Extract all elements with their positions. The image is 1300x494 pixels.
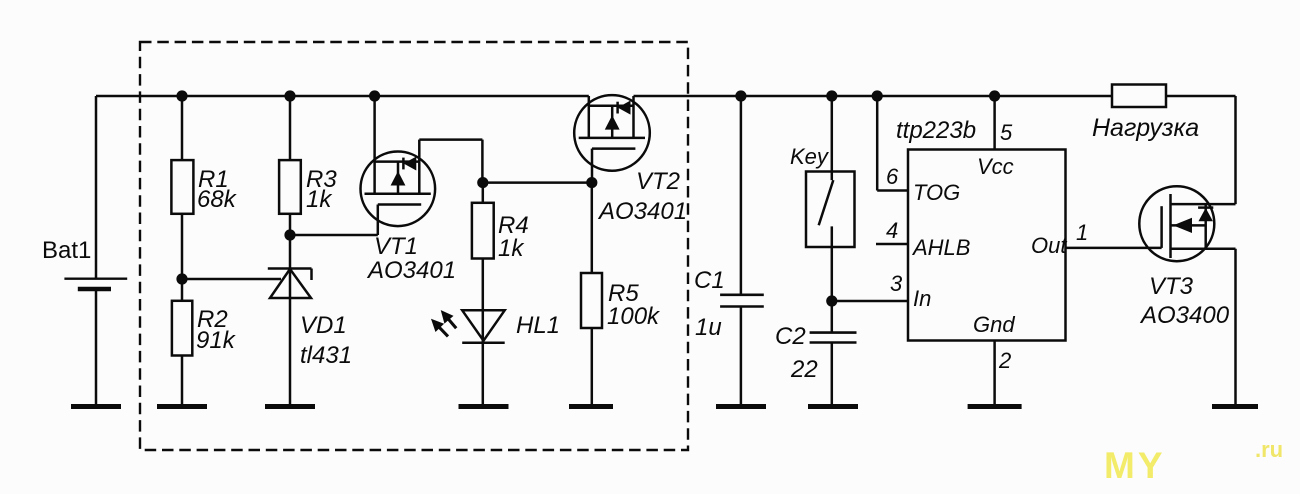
- svg-text:3: 3: [890, 271, 903, 296]
- svg-text:1k: 1k: [306, 186, 333, 213]
- svg-text:5: 5: [1000, 120, 1013, 145]
- svg-text:Gnd: Gnd: [973, 312, 1015, 337]
- svg-text:MY: MY: [1104, 445, 1166, 486]
- svg-text:C1: C1: [694, 267, 725, 294]
- svg-text:Нагрузка: Нагрузка: [1092, 114, 1199, 142]
- svg-text:C2: C2: [775, 323, 806, 350]
- svg-text:TOG: TOG: [913, 180, 960, 205]
- svg-text:.ru: .ru: [1255, 437, 1283, 462]
- svg-text:91k: 91k: [196, 327, 237, 354]
- svg-text:1k: 1k: [498, 235, 525, 262]
- svg-text:tl431: tl431: [300, 342, 352, 369]
- svg-text:100k: 100k: [607, 303, 661, 330]
- svg-text:VD1: VD1: [300, 312, 347, 339]
- svg-text:Out: Out: [1031, 233, 1067, 258]
- svg-text:AO3400: AO3400: [1139, 302, 1230, 329]
- svg-text:Key: Key: [790, 144, 830, 169]
- svg-text:ttp223b: ttp223b: [896, 117, 976, 144]
- svg-text:1u: 1u: [695, 314, 722, 341]
- svg-text:AO3401: AO3401: [597, 198, 687, 225]
- svg-text:HL1: HL1: [516, 312, 560, 339]
- svg-text:AHLB: AHLB: [911, 235, 970, 260]
- svg-text:VT3: VT3: [1149, 273, 1194, 300]
- svg-text:2: 2: [998, 348, 1011, 373]
- svg-text:AO3401: AO3401: [366, 257, 456, 284]
- svg-text:VT1: VT1: [374, 233, 418, 260]
- svg-text:1: 1: [1076, 220, 1088, 245]
- svg-text:In: In: [913, 286, 931, 311]
- svg-text:Vcc: Vcc: [977, 154, 1014, 179]
- svg-text:4: 4: [886, 218, 898, 243]
- svg-text:68k: 68k: [197, 186, 238, 213]
- svg-text:Bat1: Bat1: [42, 237, 91, 264]
- svg-text:22: 22: [790, 356, 818, 383]
- svg-text:6: 6: [886, 164, 899, 189]
- svg-text:VT2: VT2: [636, 168, 680, 195]
